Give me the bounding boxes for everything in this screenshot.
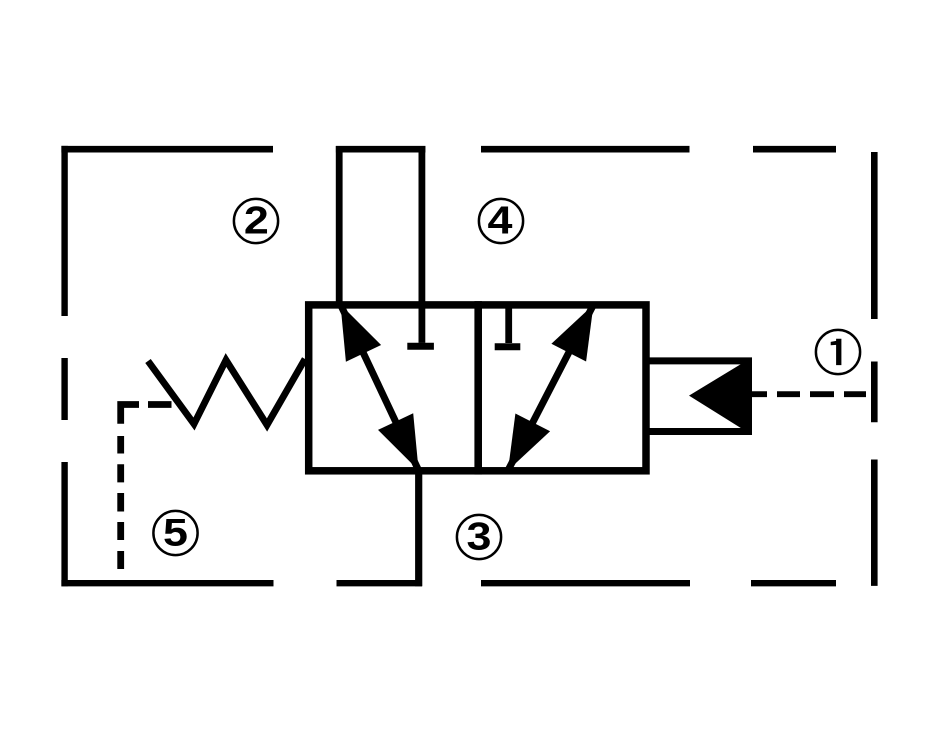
wire dashed pilot drain horizontal dash [148, 401, 172, 408]
node label 1 text [831, 339, 842, 365]
arrow right box head down [508, 414, 550, 471]
enclosure border right segment C [871, 460, 878, 586]
enclosure border left segment A [61, 146, 67, 316]
wire dashed pilot supply line port 1 [752, 391, 866, 397]
pilot box top edge [646, 357, 752, 364]
enclosure border left segment C [61, 462, 67, 586]
node label 3 circle [457, 515, 501, 559]
enclosure border top segment B [481, 146, 690, 153]
enclosure border bottom segment D [751, 580, 836, 586]
enclosure border right segment B [871, 362, 878, 423]
spring [148, 359, 305, 425]
arrow left box shaft [341, 305, 419, 471]
arrow left box head up [341, 305, 382, 362]
pilot triangle [689, 357, 752, 435]
enclosure border right segment A [871, 152, 878, 319]
valve body right position box [478, 305, 646, 471]
blocked port stub right box [505, 305, 512, 343]
pilot box bottom edge [646, 428, 752, 435]
enclosure border left segment B [61, 358, 67, 420]
blocked port T left box [407, 343, 434, 350]
wire dashed pilot drain vertical dashes [117, 436, 124, 569]
svg-text:4: 4 [488, 198, 514, 242]
node label 4 circle [479, 199, 523, 243]
enclosure border bottom segment A [61, 580, 273, 586]
node 2/4 top connector bar [336, 146, 426, 153]
node label 2 circle [234, 199, 278, 243]
blocked port T right box [495, 343, 521, 350]
enclosure border bottom segment B [337, 580, 423, 586]
arrow left box head down [378, 413, 419, 470]
node label 1 circle [816, 330, 860, 374]
wire port 3 line [415, 471, 422, 586]
enclosure border top segment C [753, 146, 836, 153]
svg-text:5: 5 [163, 510, 188, 554]
svg-text:3: 3 [467, 514, 492, 558]
arrow right box head up [551, 305, 593, 362]
svg-text:2: 2 [244, 198, 269, 242]
wire port 4 line [418, 146, 425, 343]
node label 5 circle [153, 511, 197, 555]
valve body left position box [309, 305, 479, 471]
wire port 2 line [336, 146, 343, 307]
arrow right box shaft [508, 305, 594, 471]
enclosure border top segment A [61, 146, 273, 153]
enclosure border bottom segment C [481, 580, 690, 586]
wire dashed pilot drain corner dash [121, 405, 139, 424]
